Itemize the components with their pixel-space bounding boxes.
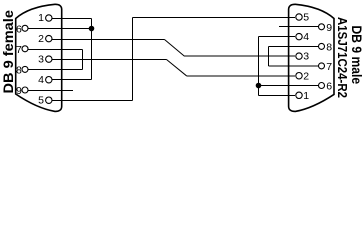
wire SG vertical riser — [132, 18, 134, 101]
wire right pin6 horizontal — [259, 85, 319, 87]
svg-text:7: 7 — [16, 44, 22, 56]
svg-text:A1SJ71C24-R2: A1SJ71C24-R2 — [335, 17, 350, 98]
svg-text:DB 9 male: DB 9 male — [349, 26, 364, 85]
wire right net 4-6-1 vertical — [258, 37, 260, 96]
svg-text:8: 8 — [16, 64, 22, 76]
svg-text:1: 1 — [303, 90, 309, 102]
pin 1 (right) — [296, 92, 302, 98]
pin 6 (right) — [319, 83, 325, 89]
svg-text:9: 9 — [16, 85, 22, 97]
svg-text:2: 2 — [38, 33, 44, 45]
wire left jumper 7-8 vertical — [82, 50, 84, 70]
pin 8 (right) — [319, 43, 325, 49]
wire right pin7 horizontal — [269, 65, 319, 67]
svg-text:7: 7 — [326, 61, 332, 73]
wire left pin6 horizontal — [28, 28, 92, 30]
svg-text:6: 6 — [326, 81, 332, 93]
pin 4 (right) — [296, 33, 302, 39]
wire left pin9 stub — [28, 90, 73, 92]
wire left pin8 horizontal — [28, 69, 83, 71]
wire left pin3 horizontal — [52, 59, 167, 61]
wire SG top horizontal to right pin5 — [133, 17, 296, 19]
wire right pin2 horizontal — [187, 75, 296, 77]
svg-text:4: 4 — [303, 31, 309, 43]
wire right pin8 horizontal — [269, 46, 319, 48]
wire left pin1 horizontal — [52, 18, 92, 20]
wire left pin5 horizontal (SG) — [52, 100, 133, 102]
svg-text:8: 8 — [326, 42, 332, 54]
wire right pin4 horizontal — [259, 36, 296, 38]
svg-text:5: 5 — [38, 94, 44, 106]
svg-text:6: 6 — [16, 23, 22, 35]
pin 9 (right) — [319, 24, 325, 30]
pin 3 (right) — [296, 53, 302, 59]
pin 5 (right) — [296, 14, 302, 20]
junction dot left pins 1-6 — [89, 26, 95, 32]
wire right pin3 horizontal — [185, 55, 296, 57]
svg-text:DB 9 female: DB 9 female — [0, 10, 16, 94]
pin 7 (right) — [319, 63, 325, 69]
svg-text:1: 1 — [38, 12, 44, 24]
connector J2 DB9 male body — [289, 4, 334, 111]
svg-text:5: 5 — [303, 12, 309, 24]
wire right jumper 7-8 vertical — [268, 47, 270, 67]
wire diagonal pin2-to-pin3 — [165, 40, 185, 57]
svg-text:3: 3 — [303, 51, 309, 63]
svg-text:9: 9 — [326, 22, 332, 34]
svg-text:3: 3 — [38, 53, 44, 65]
svg-text:4: 4 — [38, 74, 44, 86]
wire left pin2 horizontal — [52, 39, 165, 41]
wire left net 1-6-4 vertical — [91, 19, 93, 80]
wire left pin4 horizontal — [52, 79, 92, 81]
wire left pin7 horizontal — [28, 49, 83, 51]
svg-text:2: 2 — [303, 70, 309, 82]
wire diagonal pin3-to-pin2 — [167, 60, 187, 76]
wire right pin9 stub — [279, 26, 319, 28]
junction dot right pins 6-4 — [256, 83, 262, 89]
pin 2 (right) — [296, 73, 302, 79]
connector J1 DB9 female body — [16, 4, 62, 111]
wire right pin1 horizontal — [259, 95, 296, 97]
